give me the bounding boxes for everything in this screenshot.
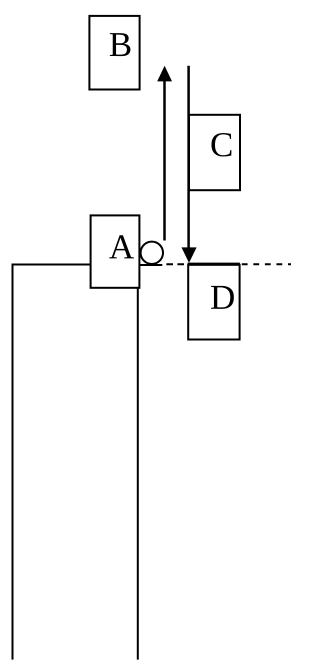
wire: dashed horizontal line right part	[242, 263, 291, 265]
wire: dashed horizontal line	[166, 263, 187, 265]
box A	[91, 215, 140, 287]
label A	[109, 235, 134, 258]
wire: tall structure left vertical line	[12, 264, 14, 660]
arrow down: head	[182, 247, 197, 263]
wire: tall structure right vertical line	[137, 287, 139, 660]
wire: ledge segment under circle	[137, 264, 163, 266]
wire: solid merge of dashed line with box D top edge	[188, 263, 240, 266]
label B	[110, 33, 131, 56]
label D	[211, 286, 234, 309]
circle: ball at ledge	[141, 242, 163, 264]
box B	[89, 16, 139, 90]
box C	[189, 115, 240, 190]
box D	[188, 265, 239, 340]
wire: tall structure top horizontal line	[12, 264, 91, 266]
arrow down: shaft	[187, 66, 190, 249]
label C	[211, 133, 231, 157]
arrow up: head	[157, 66, 172, 82]
arrow up: shaft	[163, 80, 166, 241]
